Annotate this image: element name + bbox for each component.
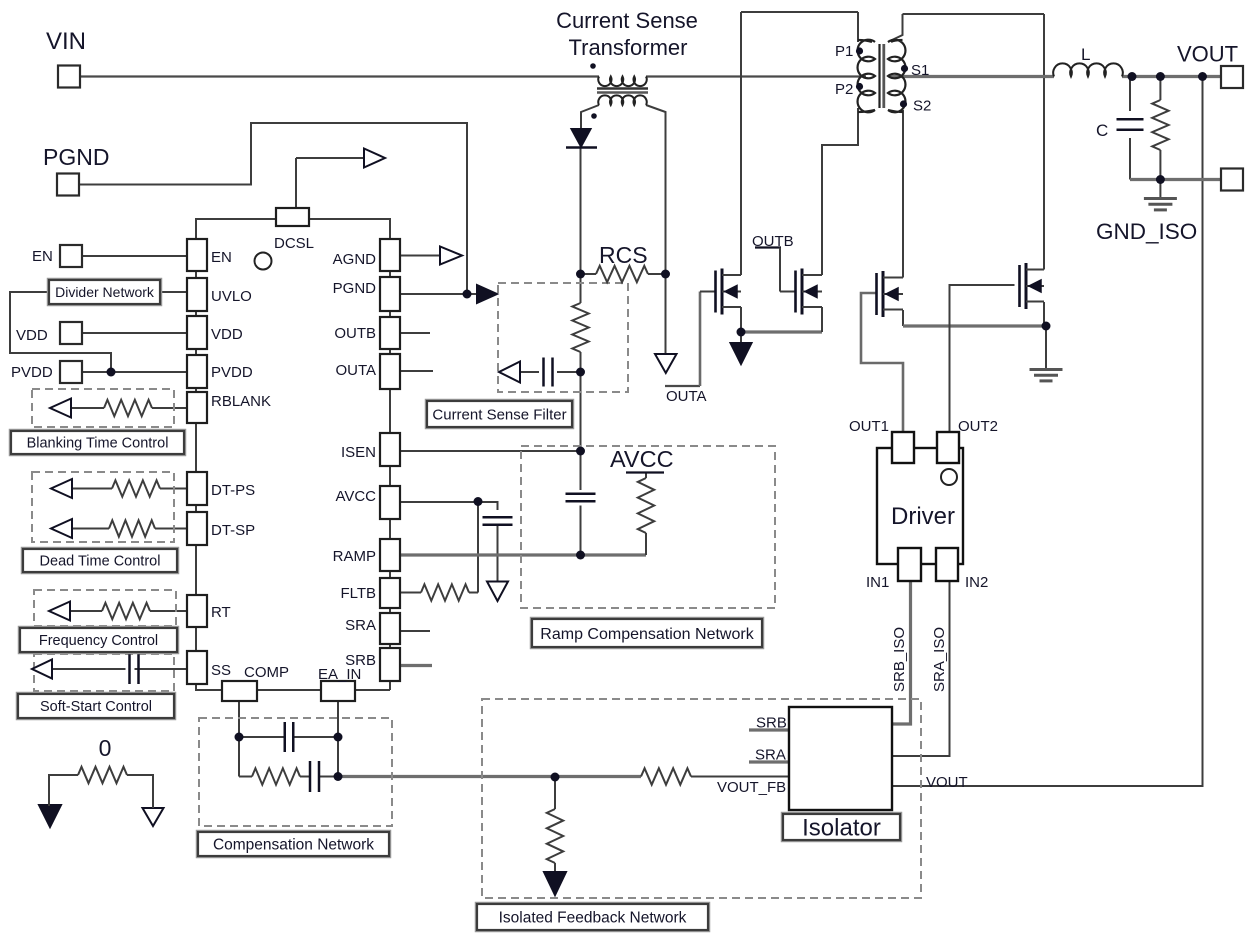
svg-text:C: C: [1096, 121, 1108, 140]
svg-text:RBLANK: RBLANK: [211, 393, 271, 410]
svg-text:P2: P2: [835, 81, 853, 98]
svg-text:RAMP: RAMP: [333, 548, 376, 565]
svg-text:DT-SP: DT-SP: [211, 522, 255, 539]
svg-text:OUTB: OUTB: [334, 325, 376, 342]
svg-text:ISEN: ISEN: [341, 444, 376, 461]
svg-text:S2: S2: [913, 98, 931, 115]
svg-text:UVLO: UVLO: [211, 288, 252, 305]
svg-text:FLTB: FLTB: [340, 585, 376, 602]
svg-text:Current Sense: Current Sense: [556, 8, 698, 33]
svg-text:OUTA: OUTA: [335, 362, 376, 379]
svg-text:VOUT: VOUT: [926, 774, 968, 791]
svg-text:DCSL: DCSL: [274, 235, 314, 252]
svg-text:Soft-Start Control: Soft-Start Control: [40, 699, 152, 715]
svg-text:Dead Time Control: Dead Time Control: [40, 554, 161, 570]
svg-text:AVCC: AVCC: [610, 446, 674, 472]
svg-text:S1: S1: [911, 62, 929, 79]
svg-text:EN: EN: [32, 248, 53, 265]
svg-text:Isolator: Isolator: [802, 815, 881, 842]
svg-text:VOUT_FB: VOUT_FB: [717, 779, 786, 796]
svg-text:SS: SS: [211, 662, 231, 679]
svg-text:SRB: SRB: [756, 715, 787, 732]
svg-text:Transformer: Transformer: [569, 35, 688, 60]
svg-text:0: 0: [99, 735, 112, 761]
svg-text:SRA: SRA: [345, 617, 376, 634]
svg-text:EA_IN: EA_IN: [318, 666, 361, 683]
svg-text:IN1: IN1: [866, 574, 889, 591]
svg-text:SRA: SRA: [755, 747, 786, 764]
svg-text:OUTA: OUTA: [666, 388, 707, 405]
svg-text:OUT1: OUT1: [849, 418, 889, 435]
svg-text:Isolated Feedback Network: Isolated Feedback Network: [499, 910, 687, 927]
svg-text:RCS: RCS: [599, 242, 648, 268]
svg-text:Driver: Driver: [891, 503, 955, 530]
svg-text:L: L: [1081, 45, 1090, 64]
svg-text:Divider Network: Divider Network: [55, 284, 155, 300]
svg-text:PGND: PGND: [43, 144, 109, 170]
svg-text:VOUT: VOUT: [1177, 42, 1238, 67]
svg-text:IN2: IN2: [965, 574, 988, 591]
svg-text:VIN: VIN: [46, 28, 86, 55]
svg-text:AVCC: AVCC: [335, 488, 376, 505]
svg-text:OUTB: OUTB: [752, 233, 794, 250]
svg-text:GND_ISO: GND_ISO: [1096, 219, 1197, 244]
svg-text:PVDD: PVDD: [11, 364, 53, 381]
svg-text:SRA_ISO: SRA_ISO: [931, 627, 948, 692]
svg-text:COMP: COMP: [244, 664, 289, 681]
svg-text:Frequency Control: Frequency Control: [39, 633, 158, 649]
svg-text:Current Sense Filter: Current Sense Filter: [432, 406, 566, 423]
svg-text:RT: RT: [211, 604, 231, 621]
svg-text:PVDD: PVDD: [211, 364, 253, 381]
svg-text:VDD: VDD: [16, 327, 48, 344]
svg-text:Blanking Time Control: Blanking Time Control: [27, 436, 169, 452]
svg-text:EN: EN: [211, 249, 232, 266]
svg-text:OUT2: OUT2: [958, 418, 998, 435]
svg-text:P1: P1: [835, 43, 853, 60]
svg-text:SRB_ISO: SRB_ISO: [891, 627, 908, 692]
svg-text:DT-PS: DT-PS: [211, 482, 255, 499]
svg-text:PGND: PGND: [333, 280, 377, 297]
svg-text:Ramp Compensation Network: Ramp Compensation Network: [540, 626, 754, 643]
svg-text:AGND: AGND: [333, 251, 377, 268]
svg-text:VDD: VDD: [211, 326, 243, 343]
svg-text:Compensation Network: Compensation Network: [213, 837, 374, 854]
